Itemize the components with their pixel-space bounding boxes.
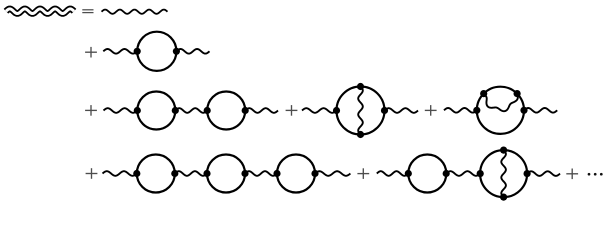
vertex dot row4 d2 3 (477, 170, 484, 177)
photon line row4 d1 c (245, 171, 277, 176)
ellipsis (cdots) (588, 173, 603, 176)
vertex dot row3 d1 1 (134, 107, 141, 114)
photon line row4 d1 a (103, 171, 137, 176)
bare photon propagator (102, 10, 168, 14)
plus sign row3 c (425, 105, 437, 116)
vertex dot row3 d3 upper-left (480, 90, 487, 97)
fermion loop row3 d2 (337, 87, 385, 135)
vertex dot row4 d2 bottom (500, 194, 507, 201)
vertex dot row3 d2 top (357, 83, 364, 90)
internal photon row4 d2 (501, 150, 506, 197)
internal photon row3 d3 (sagging arc) (484, 94, 518, 111)
vertex dot row2 left (134, 48, 141, 55)
vertex dot row4 d2 2 (443, 170, 450, 177)
fermion loop row4 d2 second (480, 150, 527, 197)
photon line row3 d2 right (385, 108, 419, 113)
fermion loop row4 d1 first (137, 155, 175, 193)
vertex dot row3 d2 bottom (357, 131, 364, 138)
vertex dot row3 d2 left (333, 107, 340, 114)
plus sign row4 a (86, 168, 98, 179)
photon line row4 d2 b (446, 171, 480, 176)
photon line row4 d1 b (175, 171, 207, 176)
fermion loop row4 d2 first (408, 155, 446, 193)
plus sign row4 b (357, 168, 369, 179)
vertex dot row3 d1 3 (204, 107, 211, 114)
photon line row2 right (176, 49, 209, 54)
photon line row3 d1 left (104, 108, 138, 113)
photon line row2 left (103, 49, 137, 54)
vertex dot row2 right (173, 48, 180, 55)
vertex dot row3 d1 4 (242, 107, 249, 114)
photon line row3 d1 right (245, 108, 278, 113)
photon line row3 d3 left (444, 108, 477, 113)
fermion loop row3 d1 second (207, 92, 245, 130)
photon line row3 d3 right (524, 108, 557, 113)
vertex dot row3 d3 right (520, 107, 527, 114)
photon line row4 d2 a (377, 171, 409, 176)
fermion loop row3 d3 (477, 87, 524, 134)
vertex dot row4 d1 2 (171, 170, 178, 177)
photon line row4 d2 c (527, 171, 560, 176)
vertex dot row3 d2 right (381, 107, 388, 114)
vertex dot row4 d2 top (500, 147, 507, 154)
vertex dot row4 d1 4 (241, 170, 248, 177)
fermion loop row4 d1 second (207, 155, 245, 193)
vertex dot row4 d1 3 (203, 170, 210, 177)
fermion loop row3 d1 first (137, 92, 175, 130)
plus sign row3 b (286, 105, 298, 116)
vertex dot row3 d3 left (473, 107, 480, 114)
vertex dot row4 d2 1 (405, 170, 412, 177)
plus sign row4 c (566, 169, 578, 180)
equals sign (82, 10, 93, 13)
plus sign row2 (85, 47, 97, 58)
photon line row4 d1 d (315, 171, 350, 176)
vertex dot row3 d1 2 (172, 107, 179, 114)
vertex dot row3 d3 upper-right (514, 90, 521, 97)
dressed photon propagator (double wavy line) (6, 9, 74, 14)
vertex dot row4 d1 1 (133, 170, 140, 177)
internal photon row3 d2 (358, 87, 363, 135)
photon line row3 d1 middle (175, 108, 207, 113)
vertex dot row4 d1 5 (273, 170, 280, 177)
vertex dot row4 d2 4 (524, 170, 531, 177)
vertex dot row4 d1 6 (311, 170, 318, 177)
fermion loop row4 d1 third (277, 155, 315, 193)
photon line row3 d2 left (302, 108, 337, 113)
fermion loop row2 (137, 32, 176, 71)
plus sign row3 a (85, 105, 97, 116)
